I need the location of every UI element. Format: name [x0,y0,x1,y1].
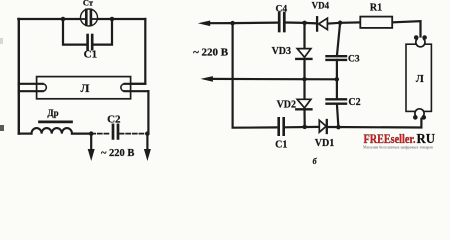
svg-text:VD1: VD1 [315,138,334,149]
diode VD3 [303,23,305,49]
svg-text:~ 220 В: ~ 220 В [193,47,229,59]
node junction C1/VD2 [302,125,307,129]
wire right top vertical [125,19,146,84]
capacitor C2 plates [113,125,118,138]
svg-text:R1: R1 [370,2,382,13]
wire bottom rail right [328,117,422,127]
arrow mains top [198,21,210,27]
capacitor C1 plates [88,35,93,49]
svg-text:VD4: VD4 [312,1,330,11]
capacitor C2 dashed lead left [91,133,110,135]
arrow mains right [146,134,148,151]
node junction left of starter [61,17,66,22]
svg-text:C1: C1 [275,140,287,151]
lamp L2 top electrode dots [414,35,419,40]
capacitor C3 branch wire [337,23,340,55]
diode VD1 cathode bar [326,120,328,133]
lamp L left electrode arc [43,84,47,91]
node junction VD3/VD2 [302,77,307,82]
svg-text:б: б [313,157,318,166]
svg-text:Л: Л [416,74,424,85]
svg-text:C4: C4 [275,5,287,15]
capacitor C1 plates [279,118,284,134]
svg-text:~ 220 В: ~ 220 В [101,148,134,159]
lamp L right pins [125,83,146,85]
starter St plates [81,10,97,25]
wire right bottom vertical [147,91,149,133]
arrow mains left [90,134,92,151]
svg-text:FREEseller.: FREEseller. [364,131,416,146]
capacitor C2 lower wire [337,104,339,127]
svg-text:С2: С2 [107,114,121,126]
lamp L right electrode arc [121,84,125,91]
diode VD4 triangle [319,18,328,29]
arrow mains middle [201,76,213,82]
lamp L2 rectangle [406,44,431,111]
capacitor C2 dashed lead right [120,133,148,135]
wire bottom rail solid [72,133,91,135]
diode VD1 triangle [319,120,326,132]
svg-text:Ст: Ст [83,0,94,7]
wire top rail [206,22,278,25]
wire middle rail [208,78,337,81]
node junction top-left [230,21,235,26]
node junction C3/C2 [336,60,338,98]
resistor R1 [360,17,392,28]
scan speck left edge lower [0,125,4,131]
wire bottom rail [285,126,319,129]
wire left bottom vertical [19,133,32,135]
inductor Dr humps [32,128,72,134]
svg-text:С1: С1 [84,49,97,61]
capacitor C2 plates [327,99,347,103]
node junction VD4/R1/C3 [338,21,343,26]
node junction C4/VD4/VD3 [302,21,307,26]
wire left vertical [233,23,277,128]
node junction bottom right [145,131,150,136]
inductor Dr core bar [40,121,72,124]
svg-text:C3: C3 [348,55,360,65]
starter St circle [81,9,98,26]
svg-text:Л: Л [81,81,90,95]
lamp L rectangle [37,77,131,99]
node junction right of starter [110,17,115,22]
svg-text:VD2: VD2 [277,100,296,111]
wire left top vertical [18,19,20,134]
capacitor C1 branch right wire [93,19,112,45]
lamp L2 bottom electrode loop [415,109,424,118]
lamp L2 top electrode loop [416,38,425,47]
svg-text:VD3: VD3 [272,46,291,57]
svg-text:Др: Др [47,108,58,118]
lamp L2 bottom electrode dots [413,115,418,120]
diode VD2 [303,79,305,99]
capacitor C4 plates [279,13,284,31]
node junction VD1/C2 [336,125,341,130]
scan speck left edge upper [0,38,3,44]
node junction bottom left [89,131,94,136]
capacitor C3 plates [327,56,347,60]
lamp L left pins [19,83,43,85]
capacitor C1 branch left wire [63,19,87,45]
svg-text:C2: C2 [348,97,360,108]
svg-text:Магазин бесплатных цифровых то: Магазин бесплатных цифровых товаров [363,145,434,150]
wire top rail [18,18,145,20]
diode VD4 cathode bar [316,17,318,30]
